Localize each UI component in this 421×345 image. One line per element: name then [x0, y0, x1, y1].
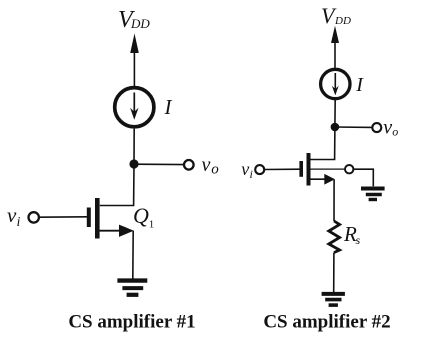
ground (source, right): [322, 294, 345, 305]
current source I (right): [321, 69, 350, 98]
resistor Rs: [329, 221, 340, 253]
svg-text:DD: DD: [334, 15, 351, 27]
wire node down to drain corner (left): [100, 164, 134, 206]
label Rs: [343, 222, 361, 247]
wire current source to node (right): [334, 99, 336, 127]
label vo (right): [383, 117, 398, 139]
label vo (left): [202, 154, 220, 178]
body terminal (right): [345, 165, 353, 173]
svg-text:o: o: [392, 124, 398, 138]
transistor Q2 gate bar: [299, 161, 303, 177]
svg-text:v: v: [202, 154, 211, 176]
wire source down to ground (left): [132, 231, 134, 280]
wire resistor to ground (right): [333, 253, 335, 293]
svg-text:1: 1: [149, 219, 155, 231]
svg-text:v: v: [383, 117, 392, 139]
ground (body, right): [361, 189, 385, 200]
svg-text:v: v: [7, 203, 17, 227]
output terminal vo (right): [372, 123, 381, 132]
svg-text:DD: DD: [130, 16, 150, 31]
svg-text:o: o: [211, 162, 219, 178]
wire node to output terminal (right): [335, 126, 372, 128]
svg-text:CS amplifier #1: CS amplifier #1: [68, 312, 195, 333]
svg-text:v: v: [241, 159, 249, 179]
node drain junction (left): [129, 159, 138, 168]
input terminal vi (right): [255, 165, 264, 174]
wire node to output terminal (left): [134, 163, 184, 165]
svg-text:s: s: [356, 233, 361, 247]
wire node down to drain corner (right): [309, 127, 335, 160]
svg-text:I: I: [355, 74, 364, 96]
transistor Q1 channel bar: [95, 198, 100, 239]
wire vi to gate (right): [264, 168, 299, 170]
current source I (left): [115, 88, 154, 127]
svg-text:I: I: [164, 95, 173, 119]
output terminal vo (left): [184, 160, 194, 170]
node VDD label (right): [321, 3, 351, 28]
node VDD label (left): [118, 7, 150, 33]
transistor Q2 channel bar: [307, 153, 311, 186]
wire body terminal to ground (right): [353, 169, 373, 186]
VDD arrow (left rail): [130, 34, 139, 88]
transistor Q2 source arrow: [310, 174, 335, 185]
transistor Q2 body line to terminal: [310, 168, 345, 170]
svg-text:i: i: [250, 167, 253, 181]
svg-text:Q: Q: [133, 203, 149, 228]
transistor Q1 source arrow: [100, 225, 134, 237]
node drain junction (right): [331, 123, 340, 132]
svg-text:i: i: [17, 215, 21, 230]
ground (left): [117, 281, 147, 295]
wire vi to gate (left): [39, 216, 87, 218]
svg-text:CS amplifier #2: CS amplifier #2: [263, 312, 390, 333]
transistor Q1 gate bar: [87, 208, 91, 228]
VDD arrow (right rail): [331, 26, 339, 70]
wire source down to resistor (right): [333, 180, 335, 221]
input terminal vi (left): [29, 212, 39, 222]
wire current source to node (left): [133, 129, 135, 164]
label vi (left): [7, 203, 21, 230]
label vi (right): [241, 159, 253, 181]
label Q1: [133, 203, 154, 231]
